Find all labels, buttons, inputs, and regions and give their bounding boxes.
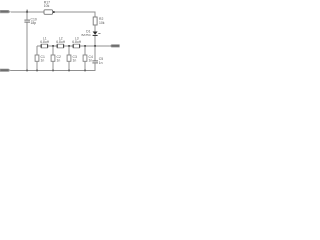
wire top from P1 to R box	[11, 11, 44, 13]
wire L2-L3	[64, 45, 73, 47]
svg-text:1n: 1n	[57, 59, 61, 63]
resistor R1 (series, top) box	[44, 10, 53, 15]
diode D1	[93, 32, 98, 36]
inductor L3 box	[73, 44, 81, 48]
inductor L2 box	[57, 44, 65, 48]
rail junction dot x=53	[52, 70, 54, 72]
wire C1 to rail	[36, 61, 38, 70]
wire C2 to rail	[52, 61, 54, 70]
capacitor C10 plates	[24, 20, 30, 21]
wire C5 lower to rail	[94, 63, 96, 70]
wire C3 to rail	[68, 61, 70, 70]
shunt branch x=37 : wire	[36, 46, 38, 55]
resistor R2 (vertical) box	[93, 17, 97, 25]
svg-text:1n: 1n	[99, 61, 103, 65]
ground rail	[9, 70, 96, 72]
port P2 (output, right)	[109, 44, 119, 47]
wire diode to mid node	[94, 36, 96, 47]
svg-text:6.8uH: 6.8uH	[72, 40, 81, 44]
rail junction dot x=27	[26, 70, 28, 72]
svg-text:10k: 10k	[99, 21, 105, 25]
capacitor C4 box	[83, 55, 87, 61]
capacitor C1 box	[35, 55, 39, 61]
rail junction dot x=37	[36, 70, 38, 72]
wire middle row left corner	[37, 45, 41, 47]
svg-text:18p: 18p	[31, 21, 37, 25]
svg-text:6.8uH: 6.8uH	[40, 40, 49, 44]
inductor L1 box	[41, 44, 49, 48]
shunt branch x=85 : wire	[84, 46, 86, 55]
svg-text:1n: 1n	[41, 59, 45, 63]
terminal dot right of R1	[53, 11, 55, 13]
svg-text:1n: 1n	[89, 59, 93, 63]
node junction dot at (27,12) with stub mark above	[26, 10, 28, 12]
tiny pin mark right of diode	[98, 33, 100, 34]
wire L1-L2	[48, 45, 57, 47]
wire L3 to node 95 and port P2	[80, 45, 110, 47]
port P3 (ground reference, bottom left)	[0, 69, 11, 72]
wire R2 to diode	[94, 25, 96, 32]
wire C4 to rail	[84, 61, 86, 70]
svg-text:1n: 1n	[73, 59, 77, 63]
wire corner down at x=95	[94, 12, 96, 17]
shunt branch x=69 : wire	[68, 46, 70, 55]
capacitor C2 box	[51, 55, 55, 61]
rail junction dot x=69	[68, 70, 70, 72]
wire top right to corner	[55, 11, 96, 13]
junction dot (53,46)	[52, 45, 54, 47]
svg-text:BAT54: BAT54	[82, 33, 91, 37]
capacitor C3 box	[67, 55, 71, 61]
svg-text:6.8uH: 6.8uH	[56, 40, 65, 44]
svg-text:10k: 10k	[44, 4, 50, 8]
port P1 (input, top left)	[0, 10, 11, 13]
junction dot (95,46)	[94, 45, 96, 47]
wire C5 upper (node to plate)	[94, 46, 96, 60]
junction dot (85,46)	[84, 45, 86, 47]
capacitor C5 plates at x=95	[92, 60, 98, 61]
shunt branch x=53 : wire	[52, 46, 54, 55]
junction dot (69,46)	[68, 45, 70, 47]
wire shunt C10 upper	[26, 12, 28, 20]
rail junction dot x=85	[84, 70, 86, 72]
wire from C10 down to ground rail	[26, 23, 28, 71]
